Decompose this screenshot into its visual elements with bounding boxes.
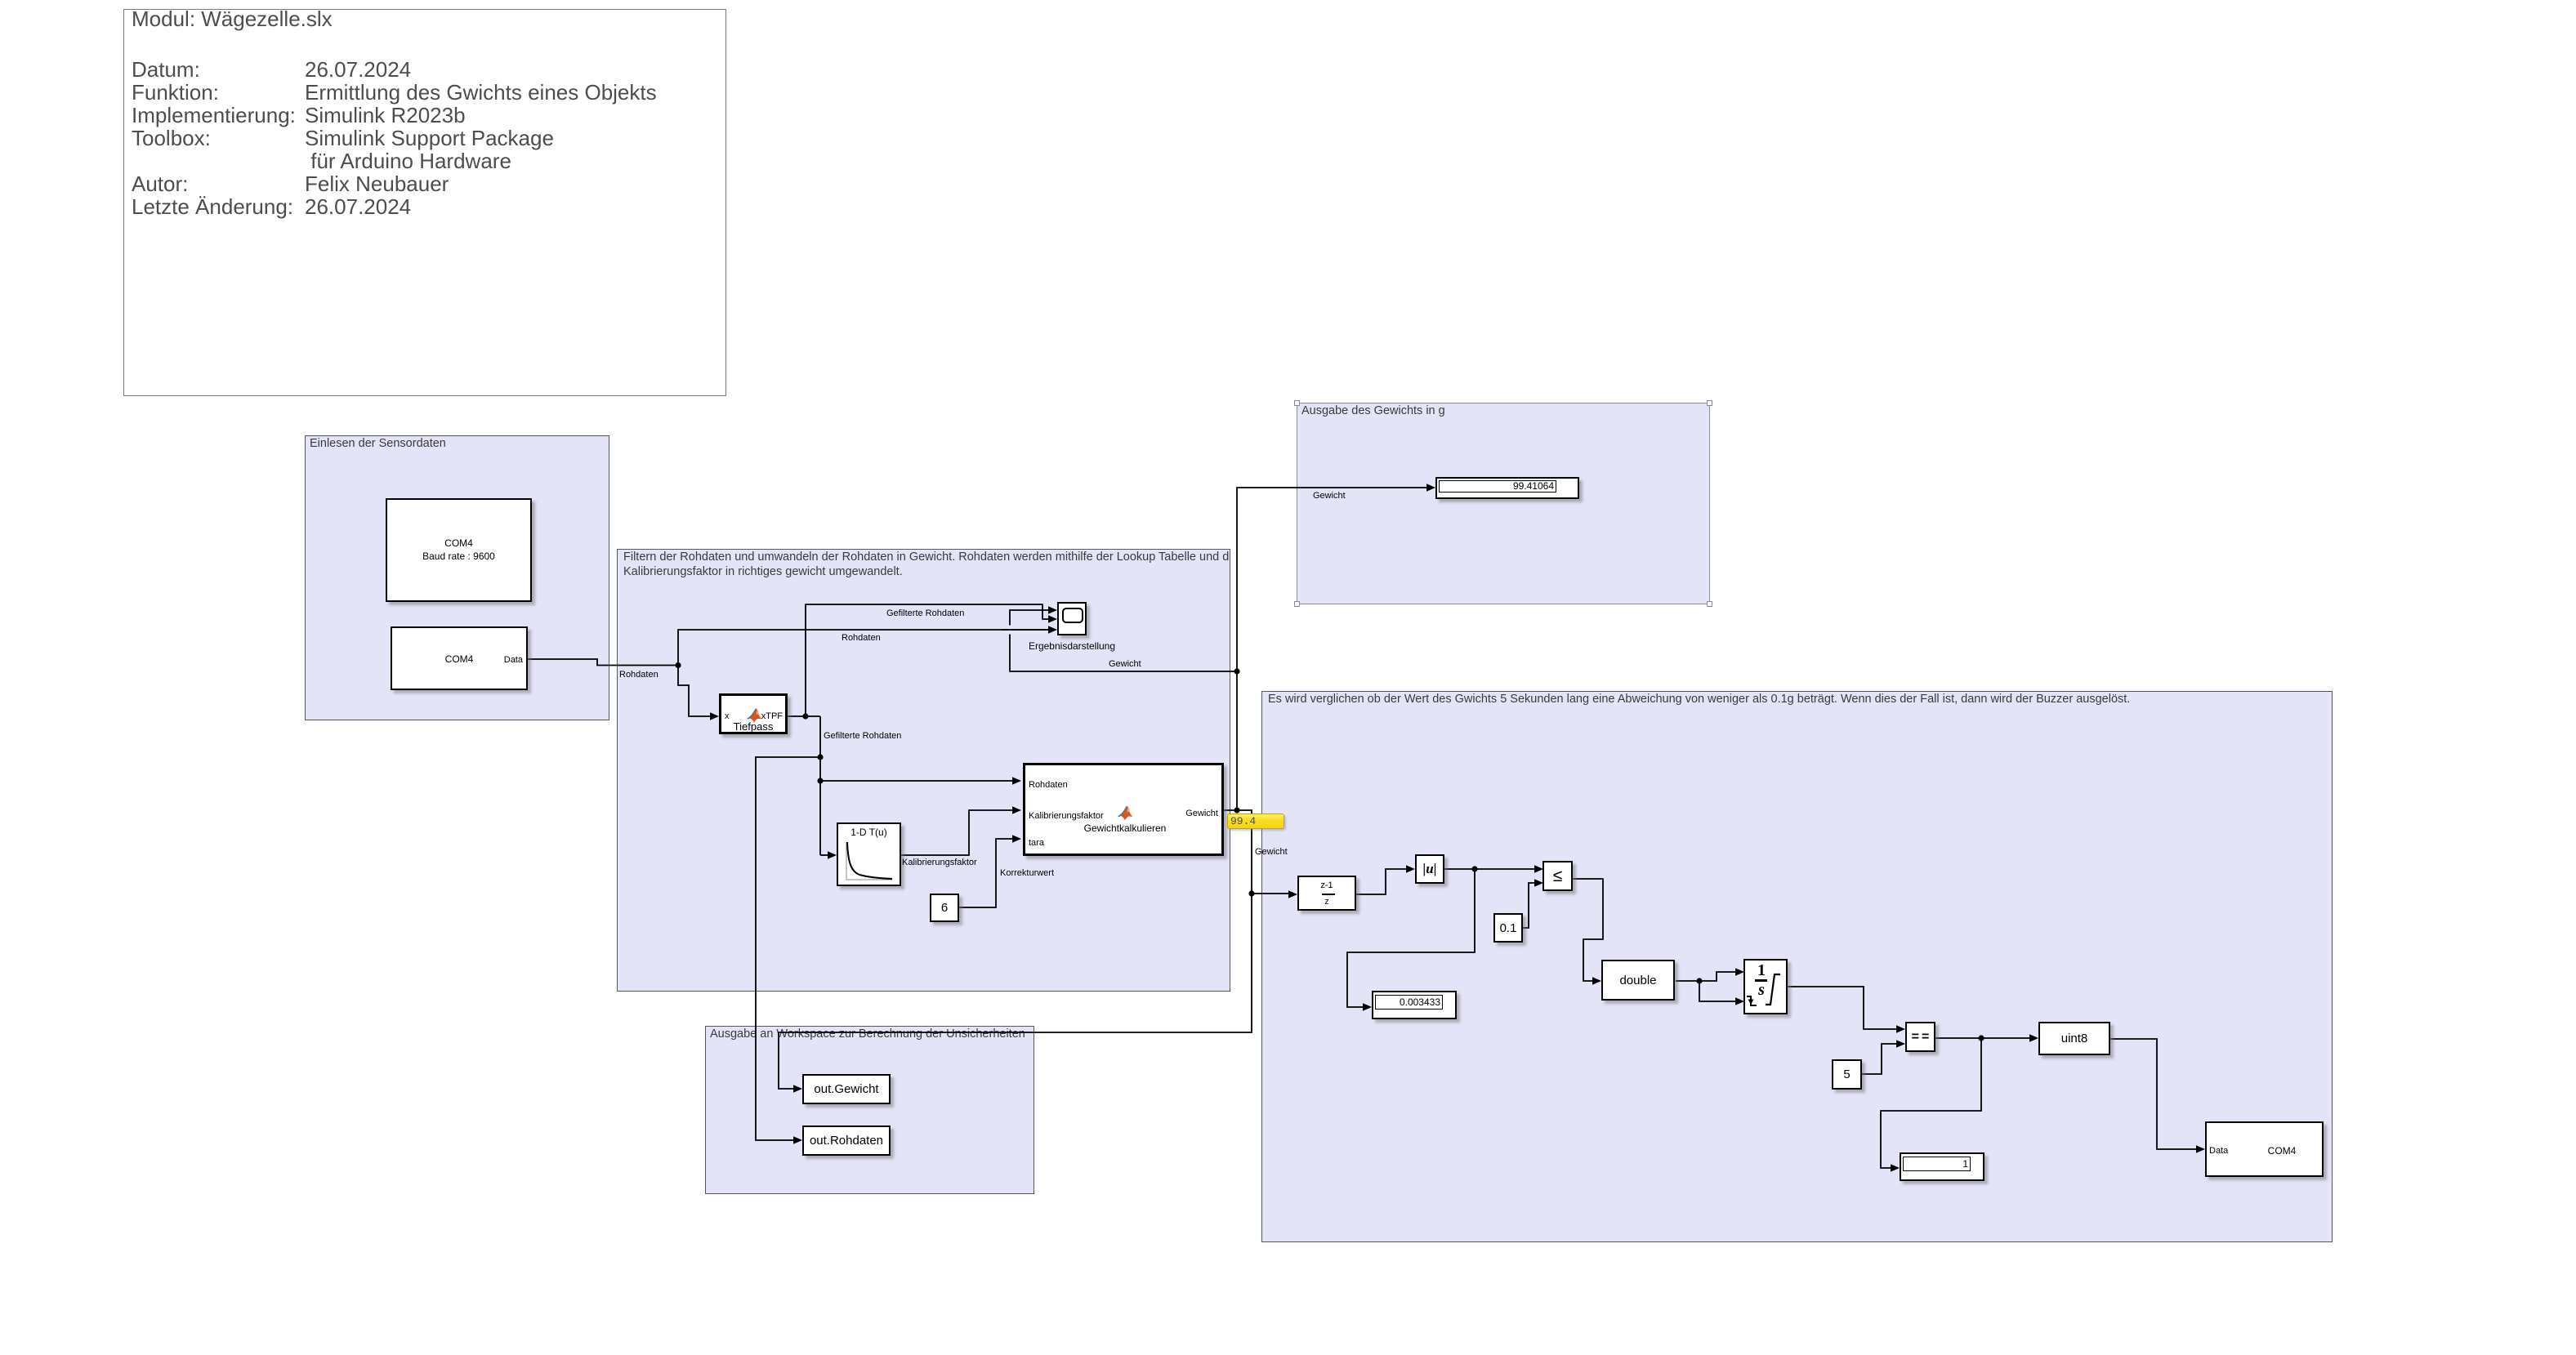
wire Rohdaten -> scope input 3 bbox=[678, 630, 1048, 666]
wire integrator -> eq bbox=[1788, 987, 1896, 1029]
label Gefilterte Rohdaten (top wire) bbox=[886, 608, 964, 619]
region: Ausgabe an Workspace bbox=[705, 1026, 1034, 1194]
block: serial configuration COM4 bbox=[386, 498, 532, 602]
block: out.Rohdaten bbox=[802, 1125, 891, 1156]
label Kalibrierungsfaktor bbox=[902, 857, 977, 868]
wire 0.1 -> relop bbox=[1522, 883, 1534, 928]
region: Es wird verglichen (buzzer) bbox=[1261, 691, 2333, 1242]
label Korrekturwert bbox=[1000, 867, 1054, 879]
label Gewicht (display wire) bbox=[1313, 490, 1346, 501]
block: Gewichtkalkulieren MATLAB function bbox=[1023, 763, 1224, 856]
region: Einlesen der Sensordaten bbox=[305, 435, 609, 720]
wire Rohdaten -> Tiefpass x bbox=[678, 666, 710, 717]
block: constant 0.1 bbox=[1493, 913, 1523, 943]
block: abs |u| bbox=[1415, 854, 1444, 884]
block: 1-D lookup table bbox=[837, 822, 901, 886]
wire Gewicht out bbox=[1224, 810, 1252, 894]
block: Tiefpass MATLAB function bbox=[719, 693, 788, 734]
wire double out bbox=[1676, 980, 1699, 982]
arrowheads bbox=[710, 712, 719, 720]
block: relational operator <= bbox=[1542, 861, 1573, 891]
block: out.Gewicht bbox=[802, 1074, 891, 1104]
junction dots bbox=[675, 662, 681, 668]
region: Filtern der Rohdaten bbox=[617, 549, 1230, 992]
label Rohdaten (input) bbox=[619, 669, 659, 680]
block: display 1 bbox=[1900, 1152, 1984, 1181]
label Rohdaten (scope wire) bbox=[842, 632, 881, 644]
wire abs -> relop bbox=[1444, 868, 1534, 870]
region: Ausgabe des Gewichts in g (selected) bbox=[1297, 403, 1710, 604]
crossing gap at (1236,771) bbox=[1009, 626, 1011, 635]
wire 5 -> eq bbox=[1862, 1044, 1896, 1074]
label Gefilterte Rohdaten (vertical wire) bbox=[824, 730, 901, 742]
wire Gewicht -> out.Gewicht bbox=[779, 894, 1252, 1089]
block: constant 5 bbox=[1832, 1059, 1862, 1090]
wire Gewicht -> z-1/z bbox=[1252, 893, 1288, 894]
wire double -> integrator in1 bbox=[1699, 972, 1735, 981]
label Gewicht (scope wire) bbox=[1109, 658, 1141, 670]
wire relop -> double bbox=[1573, 879, 1603, 981]
block: data type conversion double bbox=[1601, 960, 1675, 1001]
block: scope Ergebnisdarstellung bbox=[1057, 602, 1087, 635]
wire eq -> uint8 bbox=[1935, 1037, 2029, 1039]
info text box bbox=[123, 9, 726, 396]
wire -> Gewichtkalkulieren Rohdaten bbox=[820, 780, 1012, 782]
selection handles bbox=[1294, 400, 1300, 406]
wire Korrekturwert (6 -> tara) bbox=[959, 839, 1012, 907]
wire eq branch -> display 1 bbox=[1881, 1038, 1981, 1168]
wire Tiefpass out bbox=[788, 715, 820, 717]
block: display 99.41064 bbox=[1435, 477, 1579, 499]
block: serial send Data/COM4 bbox=[2205, 1121, 2324, 1177]
wire z-1/z -> abs bbox=[1356, 869, 1406, 894]
block: data type conversion uint8 bbox=[2038, 1022, 2110, 1055]
wire -> 1-D T(u) bbox=[820, 854, 828, 856]
wire Gefilterte Rohdaten -> scope input 2 bbox=[806, 604, 1048, 716]
wire -> out.Rohdaten bbox=[756, 757, 820, 1140]
wire COM4 Data -> Rohdaten junction bbox=[528, 659, 678, 666]
wire Gewicht -> display bbox=[1237, 488, 1426, 810]
block: display 0.003433 bbox=[1372, 991, 1457, 1019]
label Gewicht (z-1/z wire) bbox=[1255, 846, 1288, 858]
block: integrator 1/s with saturation bbox=[1743, 959, 1788, 1014]
block: discrete derivative z-1/z bbox=[1297, 876, 1356, 911]
value tag 99.4 bbox=[1227, 813, 1284, 829]
block: serial receive COM4/Data bbox=[391, 626, 528, 690]
block: relational operator == bbox=[1905, 1022, 1935, 1052]
block: constant 6 bbox=[930, 894, 959, 922]
wire Gewicht -> scope input 1 bbox=[1010, 610, 1237, 671]
wire uint8 -> Data COM4 bbox=[2110, 1039, 2196, 1149]
wire vertical Gefilterte Rohdaten bbox=[819, 716, 821, 855]
wire abs branch -> display 0.003433 bbox=[1347, 869, 1475, 1007]
wire double -> integrator in2 bbox=[1699, 981, 1735, 1001]
wire Kalibrierungsfaktor bbox=[901, 810, 1012, 855]
